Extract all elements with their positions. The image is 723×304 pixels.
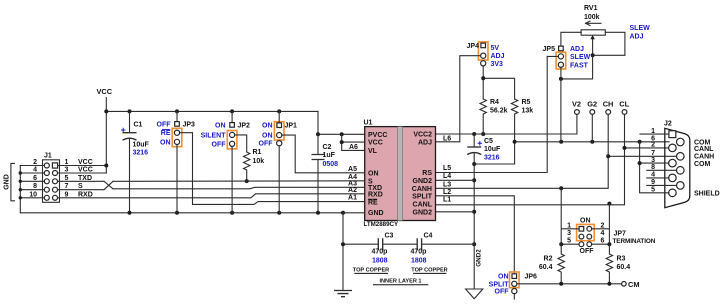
- labels J1 signal names: [78, 159, 93, 198]
- label C1 value: [133, 122, 150, 157]
- jumper JP6: [510, 272, 520, 299]
- svg-text:4: 4: [33, 167, 37, 174]
- label GND2 rotated: [476, 249, 483, 267]
- wire GND1 rail: [20, 211, 364, 215]
- svg-text:1uF: 1uF: [323, 152, 336, 159]
- svg-text:ADJ: ADJ: [418, 139, 432, 146]
- capacitor C1 polarized: [121, 111, 137, 212]
- labels JP6: [489, 274, 537, 296]
- wire U1 CANH line to CH and J2 pin7: [436, 115, 677, 190]
- wire J1 left pins to GND bus: [19, 166, 45, 213]
- labels JP4: [467, 43, 505, 68]
- labels R2 R3 values: [539, 256, 630, 272]
- svg-text:3V3: 3V3: [491, 61, 504, 68]
- svg-text:10uF: 10uF: [484, 146, 501, 153]
- svg-text:U1: U1: [364, 120, 373, 127]
- svg-text:CM: CM: [628, 280, 640, 289]
- svg-text:SLEW: SLEW: [570, 54, 591, 61]
- svg-text:470p: 470p: [372, 249, 388, 256]
- ground bracket GND: [4, 163, 15, 200]
- resistor R1 10k: [244, 152, 250, 181]
- svg-text:RS: RS: [422, 170, 432, 177]
- svg-text:OFF: OFF: [157, 122, 172, 129]
- labels J2 pin numbers: [651, 128, 655, 194]
- svg-text:G2: G2: [587, 99, 597, 108]
- svg-text:1808: 1808: [372, 258, 388, 265]
- svg-text:CANH: CANH: [694, 154, 714, 161]
- svg-text:8: 8: [651, 164, 655, 171]
- svg-text:10uF: 10uF: [133, 141, 150, 148]
- svg-text:LTM2889CY: LTM2889CY: [364, 221, 399, 228]
- svg-text:RE: RE: [161, 130, 171, 137]
- svg-text:CH: CH: [603, 99, 614, 108]
- svg-text:1: 1: [65, 159, 69, 166]
- svg-text:C1: C1: [134, 122, 143, 129]
- wire GND2 line to J2 pin6: [513, 140, 670, 144]
- wire JP5 FAST column to GND2: [560, 67, 562, 142]
- svg-text:JP7: JP7: [614, 230, 627, 237]
- svg-text:5: 5: [651, 187, 655, 194]
- svg-text:10k: 10k: [253, 158, 265, 165]
- svg-text:COM: COM: [694, 161, 711, 168]
- svg-text:OFF: OFF: [212, 141, 227, 148]
- wire VCC to U1 VCC pin: [316, 132, 365, 136]
- svg-text:JP1: JP1: [285, 123, 298, 130]
- svg-text:R2: R2: [544, 256, 553, 263]
- svg-text:JP6: JP6: [525, 274, 538, 281]
- labels copper layers: [353, 268, 448, 285]
- label C2 value: [323, 144, 339, 168]
- svg-text:5: 5: [567, 238, 571, 245]
- capacitor C4 470p: [417, 238, 474, 250]
- svg-text:FAST: FAST: [570, 62, 589, 69]
- svg-text:4: 4: [601, 230, 605, 237]
- wire ADJ line from U1 to V2: [436, 114, 577, 136]
- wire TXD line to U1 A3: [113, 187, 365, 189]
- svg-text:3216: 3216: [484, 155, 500, 162]
- svg-text:GND: GND: [4, 174, 11, 190]
- svg-text:L3: L3: [443, 181, 451, 188]
- svg-text:ON: ON: [160, 139, 171, 146]
- svg-text:SLEW: SLEW: [630, 25, 651, 32]
- node A6 label: [349, 144, 358, 151]
- ground GND2 triangle symbol: [466, 244, 483, 299]
- wire rail corner down to C2 column: [317, 111, 319, 134]
- label RV1 value: [584, 5, 600, 21]
- wire S line to U1 A4: [113, 179, 365, 183]
- svg-text:L2: L2: [443, 189, 451, 196]
- svg-text:J1: J1: [44, 153, 52, 160]
- labels JP2: [201, 122, 250, 148]
- svg-text:ON: ON: [262, 123, 273, 130]
- svg-text:3216: 3216: [133, 150, 149, 157]
- svg-text:CL: CL: [619, 99, 629, 108]
- test point CM: [622, 280, 640, 289]
- potentiometer RV1 100k: [561, 21, 625, 57]
- wire JP1 ON to U1 A5: [282, 135, 365, 173]
- svg-text:5: 5: [65, 175, 69, 182]
- svg-text:GND: GND: [368, 210, 384, 217]
- svg-text:C4: C4: [424, 233, 433, 240]
- svg-text:3: 3: [651, 157, 655, 164]
- op-amp U1 LTM2889CY isolator module: [364, 120, 436, 228]
- svg-text:A6: A6: [349, 144, 358, 151]
- svg-text:VCC: VCC: [78, 159, 93, 166]
- svg-text:R1: R1: [253, 149, 262, 156]
- svg-text:R5: R5: [522, 99, 531, 106]
- svg-text:L6: L6: [443, 135, 451, 142]
- svg-text:RXD: RXD: [368, 191, 383, 198]
- svg-text:9: 9: [65, 191, 69, 198]
- svg-text:JP2: JP2: [238, 122, 251, 129]
- svg-text:1: 1: [567, 222, 571, 229]
- svg-text:4: 4: [651, 172, 655, 179]
- svg-text:C3: C3: [385, 233, 394, 240]
- wire VCC vertical: [105, 98, 107, 174]
- resistor R2 60.4: [558, 244, 564, 284]
- svg-text:0508: 0508: [323, 161, 339, 168]
- svg-text:A1: A1: [348, 195, 357, 202]
- wire 3V3 node to R4 R5: [481, 76, 514, 99]
- svg-text:100k: 100k: [584, 14, 600, 21]
- wire JP5 SLEW to U1 RS line: [436, 56, 559, 172]
- wire U1 GND2 stub: [436, 211, 475, 213]
- svg-text:R3: R3: [617, 256, 626, 263]
- test point CL: [619, 99, 629, 114]
- svg-text:SPLIT: SPLIT: [412, 193, 433, 200]
- svg-text:ADJ: ADJ: [491, 53, 505, 60]
- wire U1 CANL line to CL and J2 pin2: [436, 115, 670, 205]
- test point V2: [572, 99, 581, 114]
- wire J2 pin3 pin5 riser: [638, 142, 669, 193]
- wire J1 pin7 S to crossover: [58, 189, 104, 191]
- svg-text:VCC: VCC: [97, 87, 113, 96]
- jumper JP5: [556, 46, 566, 69]
- svg-text:56.2k: 56.2k: [490, 108, 508, 115]
- svg-text:8: 8: [33, 183, 37, 190]
- wire JP4 ADJ pin to ADJ line: [436, 56, 481, 142]
- wire JP6 SPLIT to CM: [517, 282, 622, 286]
- svg-text:3: 3: [567, 230, 571, 237]
- svg-text:CANL: CANL: [694, 146, 714, 153]
- svg-text:L4: L4: [443, 173, 451, 180]
- capacitor C3 470p: [341, 213, 416, 291]
- svg-text:R4: R4: [490, 99, 499, 106]
- svg-text:GND2: GND2: [413, 209, 433, 216]
- junction rail dots: [104, 109, 281, 113]
- svg-text:INNER LAYER 1: INNER LAYER 1: [379, 279, 421, 285]
- svg-text:CANH: CANH: [412, 186, 432, 193]
- labels J1 pin numbers left: [29, 159, 37, 198]
- labels R4 R5 values: [490, 99, 533, 115]
- svg-text:A5: A5: [348, 166, 357, 173]
- svg-text:13k: 13k: [522, 108, 534, 115]
- svg-text:ADJ: ADJ: [630, 34, 644, 41]
- wire A6 branch to VL pin: [340, 134, 365, 150]
- svg-text:A2: A2: [348, 187, 357, 194]
- labels L6 to L1: [443, 135, 451, 203]
- capacitor C5 polarized: [467, 134, 482, 246]
- jumper JP1: [274, 111, 284, 212]
- svg-text:SILENT: SILENT: [201, 132, 227, 139]
- svg-text:6: 6: [33, 175, 37, 182]
- svg-text:ON: ON: [215, 122, 226, 129]
- svg-text:ON: ON: [580, 218, 591, 225]
- wire RV1 wiper to FAST column: [559, 55, 593, 81]
- svg-text:TOP COPPER: TOP COPPER: [411, 268, 447, 274]
- svg-text:TXD: TXD: [78, 175, 92, 182]
- svg-text:TOP COPPER: TOP COPPER: [353, 268, 389, 274]
- wire C5 bottom branch to GND2 line: [474, 142, 514, 164]
- svg-text:RXD: RXD: [78, 191, 93, 198]
- labels JP3: [157, 122, 196, 147]
- svg-text:GND2: GND2: [413, 178, 433, 185]
- svg-text:SHIELD: SHIELD: [694, 190, 720, 197]
- connector J1: [43, 160, 60, 203]
- svg-text:C2: C2: [323, 144, 332, 151]
- jumper JP2: [227, 111, 237, 212]
- resistor R5 13k: [511, 99, 517, 142]
- svg-text:470p: 470p: [411, 249, 427, 256]
- wire J1 pin1 VCC: [58, 164, 109, 168]
- labels JP5: [543, 46, 591, 69]
- labels JP7 numbers and names: [567, 218, 656, 255]
- labels JP1: [259, 123, 298, 148]
- svg-text:GND2: GND2: [476, 249, 483, 267]
- svg-text:L1: L1: [443, 197, 451, 204]
- svg-text:7: 7: [65, 183, 69, 190]
- wire JP2 SILENT to R1: [235, 135, 247, 152]
- svg-text:6: 6: [601, 238, 605, 245]
- svg-text:10: 10: [29, 191, 37, 198]
- wire JP7 pin2 pin6 right riser: [592, 204, 612, 247]
- svg-text:60.4: 60.4: [617, 264, 631, 271]
- svg-text:CANL: CANL: [413, 201, 433, 208]
- svg-text:OFF: OFF: [580, 248, 595, 255]
- svg-text:1808: 1808: [411, 258, 427, 265]
- wire U1 SPLIT line to JP6: [436, 196, 515, 274]
- svg-text:V2: V2: [572, 99, 581, 108]
- label R1 value: [253, 149, 265, 165]
- labels J2 signal names: [694, 140, 720, 198]
- label C5 value: [484, 138, 501, 162]
- wire JP3 RE to U1 A1: [180, 133, 365, 205]
- svg-text:VCC: VCC: [78, 167, 93, 174]
- jumper JP4: [478, 42, 488, 78]
- svg-text:C5: C5: [484, 138, 493, 145]
- svg-text:JP3: JP3: [183, 122, 196, 129]
- connector J2 DB9: [664, 121, 690, 208]
- test point CH: [603, 99, 614, 114]
- ground GND1 earth symbol: [334, 291, 352, 297]
- svg-text:JP5: JP5: [543, 46, 556, 53]
- wire VCC top rail: [106, 110, 318, 112]
- label J1: [44, 153, 52, 160]
- wire U1 GND2 pin line L4: [436, 179, 475, 181]
- wire J1 pin3 VCC: [58, 172, 107, 174]
- labels C3 C4 values: [372, 233, 433, 265]
- svg-text:5V: 5V: [491, 45, 500, 52]
- jumper JP7 termination: [577, 224, 595, 246]
- svg-text:SPLIT: SPLIT: [489, 281, 510, 288]
- resistor R3 60.4: [606, 244, 612, 284]
- node VCC label: [97, 87, 113, 96]
- svg-text:PVCC: PVCC: [368, 132, 387, 139]
- svg-text:OFF: OFF: [259, 141, 274, 148]
- svg-text:VCC2: VCC2: [413, 132, 432, 139]
- svg-text:VCC: VCC: [368, 140, 383, 147]
- resistor R4 56.2k: [480, 99, 486, 134]
- test point G2: [587, 99, 597, 141]
- wire J1 pin5 TXD to crossover: [58, 180, 104, 182]
- svg-text:S: S: [78, 183, 83, 190]
- svg-text:ADJ: ADJ: [570, 46, 584, 53]
- labels J1 pin numbers right: [65, 159, 69, 198]
- svg-text:JP4: JP4: [467, 43, 480, 50]
- svg-text:J2: J2: [664, 121, 672, 128]
- labels A5 to A1: [348, 166, 357, 202]
- wire J1 pin9 RXD to U1 A2: [58, 194, 365, 198]
- svg-text:RV1: RV1: [584, 5, 598, 12]
- capacitor C2: [312, 134, 325, 213]
- svg-text:3: 3: [65, 167, 69, 174]
- svg-text:1: 1: [651, 128, 655, 135]
- wire JP7 pin1 pin5 left riser: [559, 188, 579, 246]
- svg-text:VL: VL: [368, 148, 378, 155]
- svg-text:RE: RE: [368, 200, 378, 207]
- svg-text:TERMINATION: TERMINATION: [613, 238, 656, 245]
- svg-text:2: 2: [33, 159, 37, 166]
- label SLEW ADJ: [630, 25, 651, 41]
- wire J2 nc stubs pins 1 8 4 9: [640, 134, 676, 185]
- wire crossover X: [104, 181, 113, 189]
- svg-text:ON: ON: [368, 171, 379, 178]
- svg-text:OFF: OFF: [495, 289, 510, 296]
- svg-text:ON: ON: [262, 133, 273, 140]
- svg-text:2: 2: [651, 142, 655, 149]
- svg-text:60.4: 60.4: [539, 264, 553, 271]
- jumper JP3: [172, 111, 182, 212]
- svg-text:9: 9: [651, 179, 655, 186]
- svg-text:ON: ON: [498, 274, 509, 281]
- svg-text:L5: L5: [443, 165, 451, 172]
- svg-text:2: 2: [601, 222, 605, 229]
